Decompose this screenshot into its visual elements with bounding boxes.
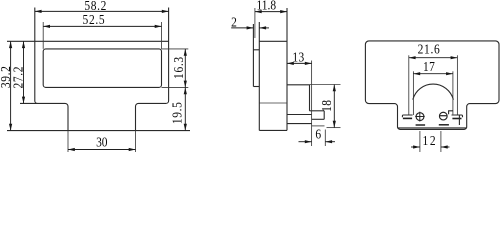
bottom edge with extensions both sides bbox=[7, 130, 190, 132]
bezel bottom step line left + 27.2 extension bbox=[20, 103, 68, 130]
bezel step line (side) bbox=[259, 102, 287, 104]
dim 58.2 bbox=[35, 10, 169, 12]
minus terminal bar bbox=[440, 115, 447, 117]
dim 18 bbox=[333, 85, 335, 128]
window lip front face + 2-dim extension up bbox=[252, 24, 254, 87]
dim 30 extensions bbox=[67, 131, 69, 152]
display window bbox=[43, 49, 161, 88]
svg-text:52.5: 52.5 bbox=[83, 12, 106, 27]
case back edge + extension up bbox=[286, 8, 288, 130]
dim 16.3 bbox=[184, 49, 186, 88]
lip bottom edge bbox=[253, 86, 259, 88]
svg-text:17: 17 bbox=[423, 59, 435, 74]
svg-text:27.2: 27.2 bbox=[11, 66, 26, 89]
svg-text:6: 6 bbox=[315, 127, 321, 142]
case front edge + extension up bbox=[258, 22, 260, 130]
terminal block back bbox=[309, 85, 311, 111]
dim 52.5 extensions bbox=[42, 22, 44, 49]
svg-text:30: 30 bbox=[96, 134, 107, 149]
movement dome arc bbox=[413, 84, 454, 100]
extension shelf line right of screw bbox=[312, 125, 325, 127]
right slot ledge bbox=[452, 115, 463, 117]
plus terminal cross vertical bbox=[419, 112, 421, 122]
svg-text:2: 2 bbox=[231, 14, 237, 29]
plus terminal circle bbox=[416, 113, 424, 121]
lip top edge bbox=[253, 49, 259, 51]
plus terminal base line bbox=[416, 124, 426, 126]
dim 11.8 bbox=[255, 11, 287, 13]
minus terminal base line bbox=[439, 124, 449, 126]
dome outer-right wall / 21.6 extension bbox=[456, 55, 458, 115]
dim 19.5 bbox=[184, 87, 186, 130]
dim 16.3 extensions bbox=[162, 48, 189, 50]
bezel left edge + 58.2 extension bbox=[35, 8, 38, 104]
extension line through screw base bbox=[311, 61, 313, 147]
left slot ledge bbox=[402, 115, 412, 117]
dim 27.2 bbox=[23, 41, 25, 103]
bezel top edge with left extension bbox=[7, 40, 169, 42]
svg-text:19.5: 19.5 bbox=[169, 101, 184, 124]
terminal inner line bbox=[287, 114, 312, 116]
case top edge bbox=[259, 40, 287, 42]
dim 30 bbox=[68, 149, 136, 151]
dome inner-left wall / 17 extension bbox=[412, 71, 414, 115]
dim 12 extensions bbox=[419, 131, 421, 152]
dim 21.6 bbox=[409, 57, 458, 59]
dim 52.5 bbox=[43, 25, 161, 27]
extension line for 18 bottom bbox=[327, 127, 341, 129]
dim 39.2 bbox=[10, 41, 12, 130]
dim 6 bbox=[299, 141, 312, 143]
svg-text:11.8: 11.8 bbox=[256, 0, 276, 13]
rear outline (T shape) bbox=[365, 41, 499, 129]
svg-text:12: 12 bbox=[423, 133, 438, 148]
dim 13 bbox=[287, 62, 312, 64]
right slot bar bbox=[452, 118, 461, 120]
right slot upper tab bbox=[449, 111, 453, 115]
extension line right of 6 bbox=[324, 130, 326, 147]
svg-text:13: 13 bbox=[292, 49, 304, 64]
dim 17 bbox=[413, 73, 453, 75]
terminal block top bbox=[287, 84, 310, 86]
extension line for 18 top bbox=[310, 84, 341, 86]
svg-text:16.3: 16.3 bbox=[171, 56, 186, 79]
dim 12 bbox=[411, 146, 420, 148]
minus terminal circle bbox=[439, 112, 447, 120]
screw shaft top bbox=[310, 110, 325, 112]
case bottom edge bbox=[259, 129, 287, 131]
dome outer-left wall / 21.6 extension bbox=[408, 55, 410, 115]
right slot inner vertical bbox=[458, 115, 460, 125]
left slot bar bbox=[403, 117, 412, 119]
terminal bottom line bbox=[287, 123, 312, 125]
screw shaft tip bbox=[323, 111, 325, 120]
svg-text:18: 18 bbox=[319, 99, 334, 111]
11.8 left extension bbox=[254, 8, 256, 38]
inner floor line of terminal section bbox=[398, 127, 466, 129]
bezel right edge + 58.2 extension bbox=[166, 8, 169, 104]
svg-text:21.6: 21.6 bbox=[418, 41, 441, 56]
plus terminal cross horizontal bbox=[415, 116, 425, 118]
dome inner-right wall / 17 extension bbox=[452, 71, 454, 114]
bezel bottom step line right bbox=[136, 103, 167, 130]
screw shaft bottom bbox=[312, 118, 325, 120]
